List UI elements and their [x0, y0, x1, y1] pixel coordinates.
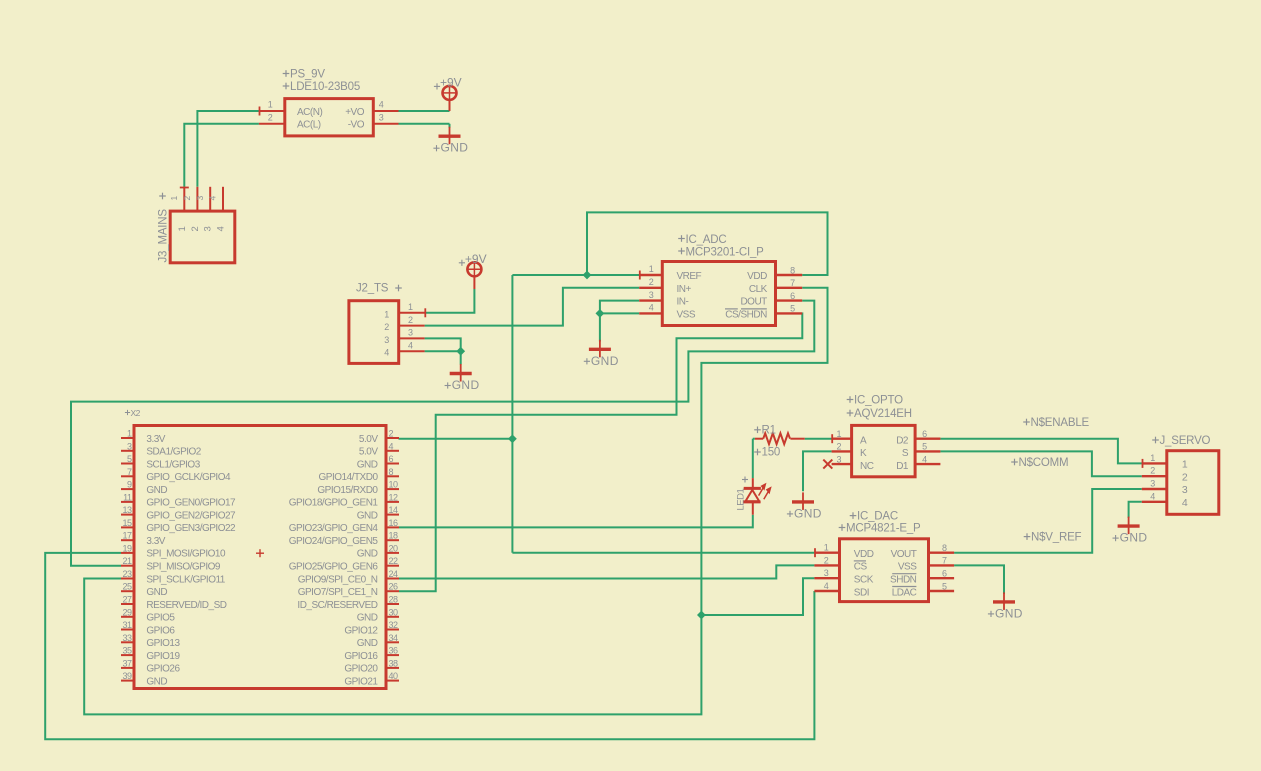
svg-text:3: 3 [1182, 484, 1188, 496]
svg-text:AC(L): AC(L) [297, 120, 321, 131]
svg-text:GPIO14/TXD0: GPIO14/TXD0 [319, 472, 379, 483]
svg-text:2: 2 [190, 227, 201, 232]
svg-text:AQV214EH: AQV214EH [854, 408, 912, 420]
svg-text:27: 27 [122, 595, 132, 605]
svg-text:17: 17 [122, 531, 132, 541]
svg-text:5: 5 [790, 304, 795, 314]
svg-text:N$V_REF: N$V_REF [1031, 532, 1082, 544]
svg-text:DOUT: DOUT [740, 297, 767, 308]
svg-text:2: 2 [268, 112, 273, 122]
svg-text:29: 29 [122, 607, 132, 617]
svg-text:VSS: VSS [677, 309, 696, 320]
svg-text:9: 9 [127, 480, 132, 490]
svg-text:GND: GND [995, 606, 1023, 620]
svg-text:SDI: SDI [854, 587, 869, 598]
svg-text:19: 19 [122, 543, 132, 553]
svg-text:6: 6 [790, 291, 795, 301]
svg-text:40: 40 [389, 671, 399, 681]
svg-text:3.3V: 3.3V [146, 434, 165, 445]
svg-text:2: 2 [824, 555, 829, 565]
svg-text:J2_TS: J2_TS [356, 283, 389, 295]
svg-text:2: 2 [389, 429, 394, 439]
svg-text:4: 4 [384, 348, 389, 358]
svg-text:CLK: CLK [749, 284, 768, 295]
svg-text:GPIO_GCLK/GPIO4: GPIO_GCLK/GPIO4 [146, 472, 231, 483]
svg-text:4: 4 [408, 340, 413, 350]
svg-text:5: 5 [942, 581, 947, 591]
svg-text:IC_OPTO: IC_OPTO [854, 395, 903, 407]
svg-text:15: 15 [122, 518, 132, 528]
svg-text:SCL1/GPIO3: SCL1/GPIO3 [146, 459, 200, 470]
svg-text:6: 6 [922, 429, 927, 439]
svg-text:32: 32 [389, 620, 399, 630]
svg-text:3: 3 [1150, 479, 1155, 489]
svg-text:J_SERVO: J_SERVO [1160, 435, 1211, 447]
svg-text:SPI_MISO/GPIO9: SPI_MISO/GPIO9 [146, 562, 221, 573]
svg-text:PS_9V: PS_9V [290, 69, 325, 81]
svg-text:3: 3 [837, 454, 842, 464]
svg-text:18: 18 [389, 531, 399, 541]
svg-text:LED1: LED1 [736, 489, 747, 511]
svg-text:13: 13 [122, 505, 132, 515]
svg-text:35: 35 [122, 646, 132, 656]
svg-text:39: 39 [122, 671, 132, 681]
svg-text:NC: NC [860, 461, 874, 472]
svg-text:4: 4 [379, 100, 384, 110]
svg-text:+VO: +VO [345, 107, 365, 118]
svg-text:2: 2 [1182, 471, 1188, 483]
svg-text:4: 4 [824, 581, 829, 591]
svg-text:34: 34 [389, 633, 399, 643]
svg-text:1: 1 [408, 302, 413, 312]
svg-text:4: 4 [649, 303, 654, 313]
svg-text:4: 4 [389, 441, 394, 451]
svg-text:IC_ADC: IC_ADC [686, 234, 727, 246]
svg-text:GPIO9/SPI_CE0_N: GPIO9/SPI_CE0_N [298, 574, 378, 585]
svg-text:36: 36 [389, 646, 399, 656]
svg-text:SCK: SCK [854, 575, 874, 586]
svg-text:A: A [860, 436, 867, 447]
svg-text:SPI_MOSI/GPIO10: SPI_MOSI/GPIO10 [146, 549, 226, 560]
svg-text:J3_MAINS: J3_MAINS [158, 209, 170, 263]
svg-text:5.0V: 5.0V [359, 447, 378, 458]
svg-text:MCP4821-E_P: MCP4821-E_P [846, 523, 921, 535]
svg-text:1: 1 [384, 309, 389, 319]
svg-text:1: 1 [127, 429, 132, 439]
svg-text:8: 8 [389, 467, 394, 477]
svg-text:GPIO25/GPIO_GEN6: GPIO25/GPIO_GEN6 [289, 562, 379, 573]
svg-text:GPIO5: GPIO5 [146, 613, 175, 624]
svg-text:3: 3 [203, 227, 214, 232]
svg-text:D2: D2 [896, 436, 909, 447]
svg-text:GND: GND [357, 510, 378, 521]
svg-text:14: 14 [389, 505, 399, 515]
svg-text:GND: GND [357, 459, 378, 470]
svg-text:GPIO_GEN0/GPIO17: GPIO_GEN0/GPIO17 [146, 498, 236, 509]
svg-text:AC(N): AC(N) [297, 107, 322, 118]
svg-text:2: 2 [649, 277, 654, 287]
svg-text:3: 3 [824, 568, 829, 578]
svg-text:5: 5 [922, 442, 927, 452]
svg-text:16: 16 [389, 518, 399, 528]
svg-text:N$ENABLE: N$ENABLE [1031, 417, 1090, 429]
svg-text:K: K [860, 448, 867, 459]
svg-text:GND: GND [146, 587, 167, 598]
svg-text:11: 11 [123, 492, 132, 502]
svg-text:150: 150 [762, 447, 781, 459]
svg-text:IC_DAC: IC_DAC [857, 511, 898, 523]
svg-text:12: 12 [389, 492, 399, 502]
svg-text:3: 3 [379, 112, 384, 122]
svg-text:VREF: VREF [677, 271, 702, 282]
svg-text:D1: D1 [896, 461, 909, 472]
svg-text:GND: GND [146, 485, 167, 496]
svg-text:1: 1 [837, 429, 842, 439]
svg-text:GPIO13: GPIO13 [146, 638, 180, 649]
svg-text:30: 30 [389, 607, 399, 617]
svg-text:2: 2 [837, 442, 842, 452]
svg-text:GPIO6: GPIO6 [146, 625, 175, 636]
svg-text:+9V: +9V [465, 252, 487, 266]
svg-text:2: 2 [384, 322, 389, 332]
svg-text:MCP3201-CI_P: MCP3201-CI_P [686, 247, 765, 259]
svg-text:6: 6 [389, 454, 394, 464]
svg-text:GPIO23/GPIO_GEN4: GPIO23/GPIO_GEN4 [289, 523, 379, 534]
svg-text:37: 37 [122, 658, 132, 668]
svg-text:20: 20 [389, 543, 399, 553]
svg-text:GND: GND [357, 549, 378, 560]
svg-text:7: 7 [942, 556, 947, 566]
svg-text:GPIO_GEN2/GPIO27: GPIO_GEN2/GPIO27 [146, 510, 236, 521]
svg-text:8: 8 [790, 265, 795, 275]
svg-text:+9V: +9V [440, 75, 462, 89]
svg-text:1: 1 [824, 543, 829, 553]
svg-text:1: 1 [649, 264, 654, 274]
svg-text:SHDN: SHDN [890, 575, 917, 586]
svg-text:VOUT: VOUT [891, 549, 917, 560]
svg-text:24: 24 [389, 569, 399, 579]
svg-text:23: 23 [122, 569, 132, 579]
svg-text:1: 1 [177, 227, 188, 232]
svg-text:GND: GND [146, 676, 167, 687]
svg-text:GND: GND [1120, 531, 1148, 545]
svg-text:1: 1 [1150, 453, 1155, 463]
svg-text:2: 2 [408, 315, 413, 325]
svg-text:N$COMM: N$COMM [1019, 457, 1069, 469]
svg-text:GND: GND [357, 638, 378, 649]
svg-text:CS/SHDN: CS/SHDN [725, 309, 767, 320]
svg-text:ID_SC/RESERVED: ID_SC/RESERVED [297, 600, 377, 611]
svg-text:-VO: -VO [348, 120, 365, 131]
svg-text:GND: GND [357, 613, 378, 624]
svg-text:GPIO24/GPIO_GEN5: GPIO24/GPIO_GEN5 [289, 536, 379, 547]
svg-text:GPIO19: GPIO19 [146, 651, 180, 662]
svg-text:3: 3 [127, 441, 132, 451]
svg-text:26: 26 [389, 582, 399, 592]
svg-text:10: 10 [389, 480, 399, 490]
svg-text:21: 21 [122, 556, 132, 566]
svg-text:28: 28 [389, 595, 399, 605]
svg-text:GPIO26: GPIO26 [146, 664, 180, 675]
svg-text:8: 8 [942, 543, 947, 553]
svg-text:4: 4 [1182, 497, 1188, 509]
svg-text:7: 7 [790, 278, 795, 288]
svg-text:5: 5 [127, 454, 132, 464]
svg-text:4: 4 [216, 227, 227, 232]
svg-text:SPI_SCLK/GPIO11: SPI_SCLK/GPIO11 [146, 574, 225, 585]
svg-text:X2: X2 [131, 408, 141, 418]
svg-text:IN+: IN+ [677, 284, 692, 295]
svg-text:GND: GND [591, 354, 619, 368]
svg-text:LDAC: LDAC [892, 587, 917, 598]
svg-text:GPIO21: GPIO21 [344, 676, 378, 687]
svg-text:4: 4 [922, 454, 927, 464]
svg-text:R1: R1 [762, 424, 776, 436]
svg-text:GPIO12: GPIO12 [344, 625, 378, 636]
svg-text:38: 38 [389, 658, 399, 668]
svg-text:GPIO20: GPIO20 [344, 664, 378, 675]
svg-text:3: 3 [384, 335, 389, 345]
svg-text:SDA1/GPIO2: SDA1/GPIO2 [146, 447, 201, 458]
svg-text:7: 7 [127, 467, 132, 477]
svg-text:3: 3 [408, 328, 413, 338]
svg-text:6: 6 [942, 569, 947, 579]
svg-text:RESERVED/ID_SD: RESERVED/ID_SD [146, 600, 226, 611]
svg-text:VDD: VDD [854, 549, 874, 560]
svg-text:GND: GND [441, 141, 469, 155]
svg-text:GPIO_GEN3/GPIO22: GPIO_GEN3/GPIO22 [146, 523, 236, 534]
svg-text:4: 4 [1150, 491, 1155, 501]
svg-text:31: 31 [122, 620, 132, 630]
svg-text:25: 25 [122, 582, 132, 592]
svg-text:LDE10-23B05: LDE10-23B05 [290, 81, 360, 93]
svg-text:2: 2 [1150, 466, 1155, 476]
svg-text:1: 1 [268, 100, 273, 110]
svg-text:VDD: VDD [747, 271, 767, 282]
svg-text:S: S [902, 448, 909, 459]
svg-text:3.3V: 3.3V [146, 536, 165, 547]
svg-text:GPIO7/SPI_CE1_N: GPIO7/SPI_CE1_N [298, 587, 378, 598]
svg-text:GND: GND [794, 506, 822, 520]
svg-text:GPIO15/RXD0: GPIO15/RXD0 [317, 485, 378, 496]
svg-text:1: 1 [1182, 459, 1188, 471]
svg-text:5.0V: 5.0V [359, 434, 378, 445]
svg-text:GPIO18/GPIO_GEN1: GPIO18/GPIO_GEN1 [289, 498, 379, 509]
svg-text:GPIO16: GPIO16 [344, 651, 378, 662]
svg-text:IN-: IN- [677, 297, 689, 308]
svg-text:22: 22 [389, 556, 399, 566]
svg-text:GND: GND [452, 378, 480, 392]
svg-text:CS: CS [854, 562, 868, 573]
svg-text:33: 33 [122, 633, 132, 643]
svg-text:3: 3 [649, 290, 654, 300]
svg-text:VSS: VSS [898, 562, 917, 573]
